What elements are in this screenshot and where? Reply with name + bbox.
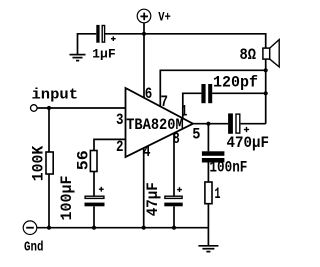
ground (top left) — [70, 55, 86, 61]
svg-text:1: 1 — [215, 185, 221, 203]
wire pin 4 down to ground rail — [143, 148, 145, 228]
svg-text:3: 3 — [116, 111, 124, 129]
svg-text:Gnd: Gnd — [24, 241, 44, 256]
wire C3 down to ground rail — [93, 206, 95, 227]
svg-text:2: 2 — [116, 138, 124, 156]
node junction dot input — [47, 106, 51, 110]
svg-text:7: 7 — [161, 93, 169, 111]
svg-text:47µF: 47µF — [144, 182, 162, 216]
svg-text:5: 5 — [192, 125, 200, 143]
capacitor C6 100nF — [202, 151, 225, 162]
Gnd terminal — [23, 221, 37, 235]
svg-text:V+: V+ — [158, 10, 171, 25]
wire pin 2 left and down to R2 — [94, 139, 126, 150]
resistor R1 100K — [46, 152, 53, 174]
node junction dot top rail — [142, 32, 146, 36]
ground (bottom) — [198, 246, 218, 252]
resistor R2 56 — [90, 151, 97, 172]
svg-text:56: 56 — [75, 150, 93, 170]
svg-text:100µF: 100µF — [58, 176, 76, 221]
svg-text:1µF: 1µF — [92, 46, 116, 61]
wire top rail right — [144, 34, 266, 48]
node junction dot rail R1 — [47, 226, 51, 230]
capacitor C4 47uF — [164, 187, 182, 206]
node junction dot rail pin4 — [142, 226, 146, 230]
svg-text:100nF: 100nF — [209, 159, 247, 177]
svg-text:6: 6 — [145, 85, 153, 103]
svg-text:120pf: 120pf — [213, 74, 258, 92]
wire rail down to ground symbol — [207, 228, 209, 246]
input terminal — [31, 105, 38, 112]
wire V+ down to pin 6 — [143, 23, 145, 98]
speaker LS1 — [263, 40, 279, 67]
node junction dot rail C3 — [92, 226, 96, 230]
wire pin 5 output — [193, 123, 228, 125]
wire C4 down to ground rail — [173, 206, 175, 227]
wire 1uF to ground — [78, 34, 97, 55]
wire input to pin 3 — [37, 107, 125, 109]
capacitor C3 100uF — [85, 187, 105, 207]
svg-text:input: input — [32, 87, 79, 104]
svg-text:470µF: 470µF — [227, 134, 270, 152]
node junction dot output — [206, 122, 210, 126]
wire R1 down to ground rail — [48, 174, 50, 228]
wire input junction down to R1 — [48, 108, 50, 152]
node junction dot 120pf right — [264, 91, 268, 95]
wire 470uF right to speaker rail — [241, 123, 266, 125]
node junction dot speaker/pin7 — [264, 68, 268, 72]
wire speaker down — [265, 59, 267, 124]
op-amp U1 TBA820M triangle — [126, 88, 194, 157]
wire C6 down to R3 — [207, 163, 209, 183]
capacitor C5 470uF — [228, 113, 249, 133]
wire R3 down to ground rail end — [207, 204, 209, 228]
node junction dot rail C4 — [172, 226, 176, 230]
wire ground rail — [37, 227, 209, 229]
wire output junction down to C6 — [207, 124, 209, 152]
resistor R3 1 — [205, 182, 212, 204]
capacitor C1 1uF — [96, 25, 115, 43]
wire pin 8 down to C4 — [173, 133, 175, 195]
wire pin 1 up and right to 120pf — [183, 93, 202, 118]
wire top rail left to 1uF — [105, 33, 144, 35]
svg-text:1: 1 — [181, 103, 187, 121]
wire pin 7 to speaker — [160, 70, 265, 106]
wire 120pf right — [212, 92, 266, 94]
V+ terminal — [137, 9, 151, 23]
wire R2 down to C3 — [93, 172, 95, 196]
svg-text:8Ω: 8Ω — [240, 46, 257, 64]
svg-text:100K: 100K — [30, 145, 48, 181]
capacitor C2 120pf — [201, 84, 212, 103]
